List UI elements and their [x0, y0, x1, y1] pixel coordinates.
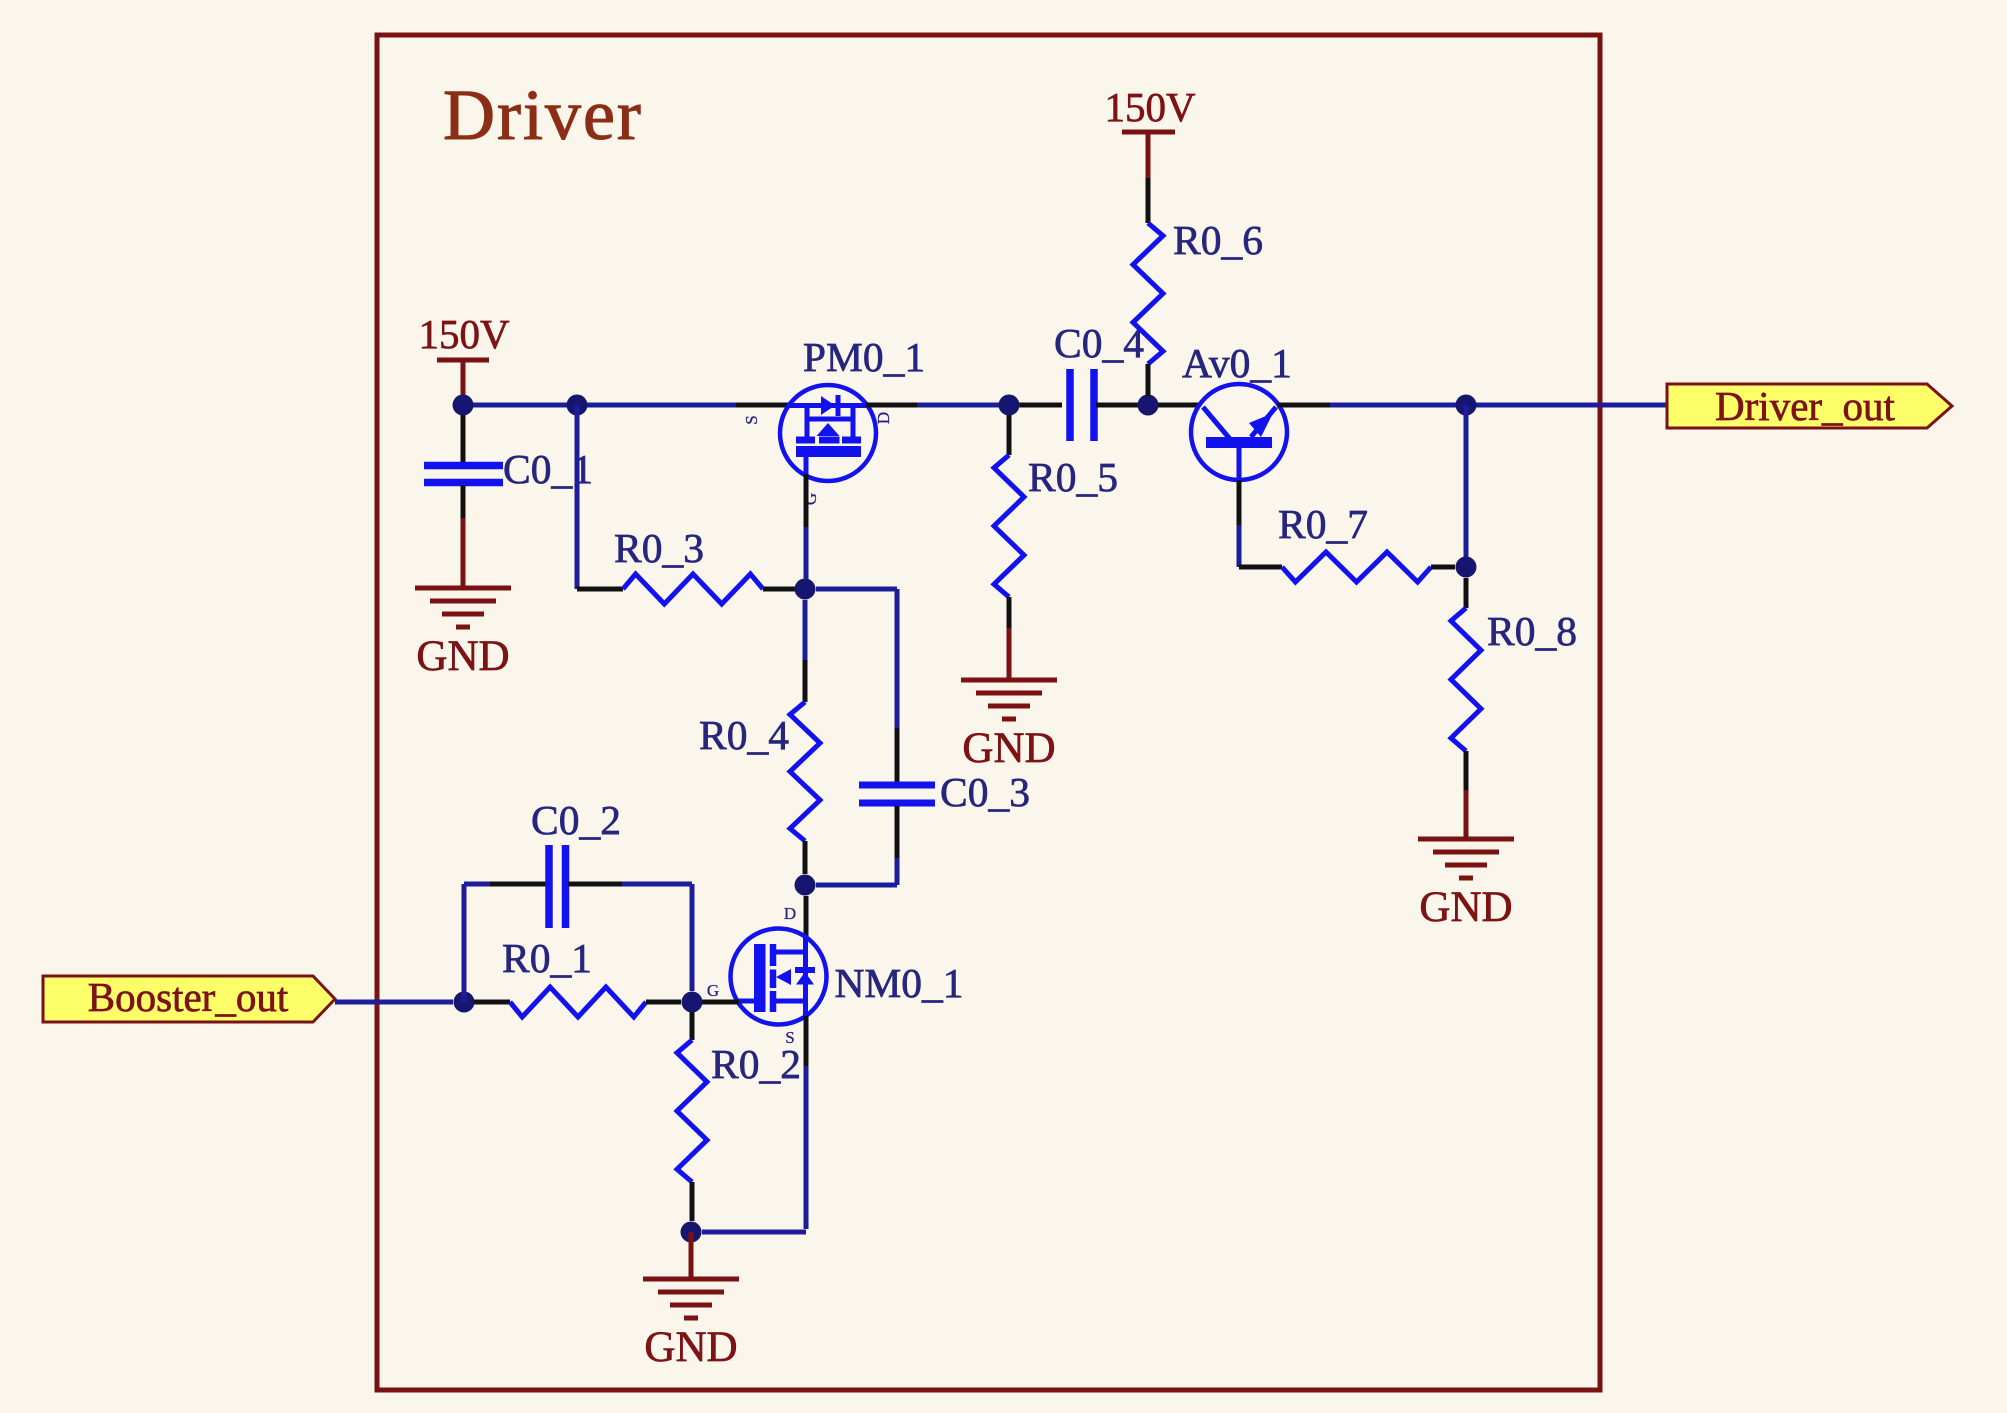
svg-text:R0_1: R0_1 — [502, 935, 592, 981]
capacitor C0_2 — [464, 797, 622, 928]
svg-text:C0_2: C0_2 — [531, 797, 621, 843]
net label Driver_out — [1667, 383, 1952, 429]
ground GND (below R0_8) — [1418, 839, 1514, 931]
svg-text:Booster_out: Booster_out — [88, 974, 289, 1020]
power 150V (top) — [1104, 84, 1196, 178]
node output/R0_8 branch — [1456, 395, 1477, 416]
svg-text:R0_7: R0_7 — [1278, 501, 1368, 547]
wire C0_1 to ground — [461, 518, 466, 588]
wire C0_3 to R0_4 node (bottom) — [816, 858, 897, 885]
NM0_1 pin label G — [707, 981, 719, 1000]
wire PM0_1 gate to R0_3 node — [804, 474, 809, 580]
wire C0_2 right riser — [622, 884, 692, 991]
net label Booster_out — [43, 974, 335, 1022]
node R0_2/NM0_1 source/ground — [681, 1222, 702, 1243]
resistor R0_8 — [1451, 578, 1577, 790]
svg-text:Driver: Driver — [443, 75, 643, 155]
svg-text:C0_3: C0_3 — [940, 769, 1030, 815]
wire output node down to R0_7 node — [1464, 405, 1469, 567]
capacitor C0_1 — [424, 415, 593, 518]
Av0_1 designator label — [1182, 340, 1292, 386]
wire Av0_1 emitter to output node — [1330, 403, 1667, 408]
wire rail branch down to R0_3 — [575, 405, 580, 589]
resistor R0_4 — [699, 600, 820, 874]
svg-text:Av0_1: Av0_1 — [1182, 340, 1292, 386]
PM0_1 pin label G — [801, 493, 820, 505]
svg-text:150V: 150V — [418, 311, 510, 357]
ground GND (below R0_2) — [643, 1279, 739, 1371]
svg-text:PM0_1: PM0_1 — [803, 334, 925, 380]
wire Booster_out to R0_1 node — [335, 1000, 453, 1005]
wire R0_3 node to C0_3 (top) — [816, 589, 897, 728]
node C0_4/R0_6 — [1138, 395, 1159, 416]
svg-text:150V: 150V — [1104, 84, 1196, 130]
svg-text:GND: GND — [1419, 884, 1512, 931]
wire main rail from 150V node to PM0_1 source — [463, 403, 791, 408]
wire R0_8 to ground — [1464, 790, 1469, 839]
svg-text:R0_4: R0_4 — [699, 712, 789, 758]
resistor R0_7 — [1278, 501, 1455, 582]
PM0_1 pin label D — [874, 412, 893, 424]
transistor Av0_1 (BJT) — [1158, 384, 1330, 480]
transistor NM0_1 (NMOS) — [731, 896, 827, 1066]
capacitor C0_4 — [1020, 320, 1148, 441]
node rail/C0_1 — [453, 395, 474, 416]
transistor PM0_1 (PMOS) — [780, 385, 876, 481]
node rail/R0_3 branch — [567, 395, 588, 416]
svg-text:G: G — [707, 981, 719, 1000]
svg-text:GND: GND — [962, 725, 1055, 772]
wire R0_5 to ground — [1007, 628, 1012, 680]
wire C0_2 left riser — [462, 884, 467, 1002]
NM0_1 pin label S — [785, 1028, 794, 1047]
svg-text:R0_8: R0_8 — [1487, 608, 1577, 654]
node R0_7/R0_8 — [1456, 557, 1477, 578]
ground GND (below C0_1) — [415, 588, 511, 680]
svg-text:Driver_out: Driver_out — [1715, 383, 1896, 429]
resistor R0_6 — [1133, 178, 1263, 396]
node R0_3/R0_4/gate junction — [795, 579, 816, 600]
wire PM0_1 drain to node — [866, 403, 1030, 408]
node Booster/R0_1/C0_2 — [454, 992, 475, 1013]
wire NM0_1 source down and left — [702, 1066, 806, 1232]
PM0_1 pin label S — [742, 415, 761, 424]
svg-text:D: D — [874, 412, 893, 424]
svg-text:S: S — [742, 415, 761, 424]
wire Av0_1 base down to R0_7 — [1239, 480, 1282, 567]
svg-text:GND: GND — [644, 1324, 737, 1371]
node rail/R0_5/C0_4 — [999, 395, 1020, 416]
NM0_1 designator label — [834, 960, 963, 1006]
capacitor C0_3 — [859, 728, 1030, 858]
svg-text:R0_3: R0_3 — [614, 525, 704, 571]
wire NM0_1 gate to R0_1 node — [702, 1000, 739, 1005]
power 150V (left) — [418, 311, 510, 398]
svg-text:R0_5: R0_5 — [1028, 454, 1118, 500]
resistor R0_3 — [577, 525, 795, 604]
resistor R0_5 — [994, 415, 1118, 628]
svg-text:R0_2: R0_2 — [711, 1041, 801, 1087]
NM0_1 pin label D — [784, 904, 796, 923]
ground GND (below R0_5) — [961, 680, 1057, 772]
svg-text:R0_6: R0_6 — [1173, 217, 1263, 263]
resistor R0_1 — [474, 935, 681, 1017]
node R0_4/C0_3/NM0_1 drain — [795, 875, 816, 896]
svg-text:GND: GND — [416, 633, 509, 680]
resistor R0_2 — [677, 1012, 801, 1221]
title Driver — [443, 75, 643, 155]
node R0_1/R0_2/gate — [682, 992, 703, 1013]
svg-text:NM0_1: NM0_1 — [834, 960, 963, 1006]
svg-text:C0_4: C0_4 — [1054, 320, 1144, 366]
wire node to ground — [689, 1232, 694, 1279]
PM0_1 designator label — [803, 334, 925, 380]
svg-text:D: D — [784, 904, 796, 923]
